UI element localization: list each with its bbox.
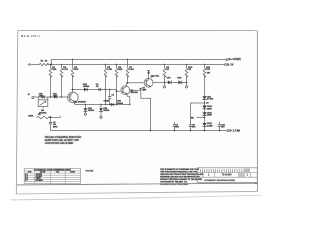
- wire Q2 collector to Q3 base: [126, 82, 144, 84]
- wire R10 bottom lead: [186, 75, 188, 82]
- diode CR2: [54, 95, 57, 98]
- node test point TP2: [185, 86, 187, 88]
- wire Q3 to diode line: [153, 81, 168, 83]
- svg-text:68K: 68K: [118, 69, 122, 71]
- title block row 2 dividers: [202, 173, 204, 178]
- inductor L4 collector lead: [148, 71, 150, 78]
- node L4 arrow: [147, 71, 150, 74]
- capacitor C1: [49, 121, 52, 123]
- transistor Q2: [121, 86, 130, 95]
- node terminal below CR4: [84, 111, 86, 113]
- resistor R11: [203, 68, 206, 77]
- wire Q3 emitter with arrow: [146, 84, 150, 86]
- wire C7 stub: [174, 122, 176, 125]
- wire CR2 to Q1 base: [57, 96, 70, 98]
- node junction R6 detector: [116, 104, 118, 106]
- svg-text:WITHOUT WRITTEN CONSENT OF THE: WITHOUT WRITTEN CONSENT OF THE MAKER.: [160, 178, 203, 181]
- svg-text:TOL: TOL: [56, 172, 59, 174]
- svg-text:B- 2.7 MA: B- 2.7 MA: [230, 129, 241, 132]
- svg-text:1K: 1K: [45, 61, 48, 63]
- wire rail A to rail B connector: [50, 60, 52, 65]
- wire rail B (supply bus): [47, 64, 225, 66]
- wire C1 top lead: [50, 118, 52, 123]
- wire CR1 to CR2: [45, 96, 54, 98]
- diode CR9: [202, 96, 206, 99]
- wire R10 top lead: [186, 65, 188, 69]
- diode CR8: [178, 81, 181, 85]
- wire Q1 collector: [70, 93, 72, 96]
- node junction rails: [50, 64, 52, 66]
- wire R3 top lead: [61, 65, 63, 69]
- svg-text:L4 COIL: L4 COIL: [152, 74, 160, 77]
- svg-text:1.5K: 1.5K: [107, 69, 112, 71]
- svg-text:RESISTORS ARE 1/2 WATT 10%: RESISTORS ARE 1/2 WATT 10%: [45, 139, 79, 142]
- svg-text:B+ 4.5V(R): B+ 4.5V(R): [229, 58, 241, 61]
- svg-text:15K: 15K: [52, 69, 56, 71]
- resistor R4: [71, 68, 74, 77]
- node terminal below CR5: [100, 111, 102, 116]
- node B+ terminal: [226, 59, 228, 61]
- title block frame: [197, 168, 257, 183]
- chart header row: [24, 172, 80, 174]
- wire C1 bottom lead: [50, 124, 52, 131]
- chart column rules: [34, 171, 36, 183]
- wire R3 bottom lead: [61, 75, 63, 97]
- diode CR1: [42, 95, 45, 98]
- node junction rail C7: [174, 130, 176, 132]
- diode CR3: [84, 88, 87, 92]
- wire R8 top lead: [164, 65, 166, 69]
- resistor R2: [49, 68, 52, 77]
- node junction rail at R4: [72, 59, 73, 60]
- diode CR6 on detector line: [111, 103, 114, 106]
- wire Q2 emitter lead: [127, 94, 130, 96]
- svg-text:SCHEMATIC DIAGRAM MODEL: SCHEMATIC DIAGRAM MODEL: [204, 179, 236, 182]
- node junction rail at R11: [204, 64, 205, 65]
- svg-text:500K: 500K: [28, 115, 33, 117]
- wire R6 bottom lead: [116, 75, 118, 104]
- wire bottom return rail: [51, 130, 228, 132]
- capacitor C7: [173, 124, 176, 126]
- node junction emitter branch on rail: [150, 130, 152, 132]
- wire Q1 collector line: [73, 89, 117, 91]
- svg-text:THIS SCHEMATIC IS FURNISHED ON: THIS SCHEMATIC IS FURNISHED ONLY FOR: [160, 168, 200, 171]
- wire R8 bottom lead: [164, 75, 166, 82]
- node junction TP branch: [204, 117, 205, 118]
- wire CR7 to CR8: [171, 81, 178, 83]
- resistor R1: [39, 63, 48, 65]
- wire detector line: [75, 104, 130, 106]
- svg-text:1N34A: 1N34A: [83, 85, 90, 88]
- svg-text:1N34A: 1N34A: [88, 109, 95, 112]
- svg-text:1N34A: 1N34A: [103, 109, 110, 112]
- resistor R6: [115, 68, 118, 77]
- node junction rail stack: [204, 130, 206, 132]
- title block comb ticks: [200, 169, 241, 172]
- svg-text:1K: 1K: [188, 69, 191, 71]
- frame bottom rule: [17, 183, 257, 185]
- wire TP branch: [197, 117, 205, 119]
- crystal unit Y1 box: [38, 100, 48, 107]
- svg-text:MFD: MFD: [53, 126, 58, 128]
- svg-text:PATENTED AND MAY NOT BE REPROD: PATENTED AND MAY NOT BE REPRODUCED: [160, 175, 200, 178]
- svg-text:CODE: CODE: [70, 172, 76, 174]
- diode CR5: [99, 108, 103, 111]
- node B+ feed arrow: [28, 63, 30, 65]
- crystal element inside Y1: [40, 101, 46, 105]
- capacitor C6 blob: [140, 88, 142, 90]
- svg-text:UNLESS OTHERWISE INDICATED:: UNLESS OTHERWISE INDICATED:: [45, 136, 82, 139]
- svg-text:C-7: C-7: [25, 180, 28, 182]
- paper sheet background: [17, 30, 257, 192]
- wire Q2 emitter bypass branch: [130, 90, 151, 130]
- wire CR8 to R10: [182, 81, 187, 83]
- wire Y1 bottom stem: [42, 107, 44, 109]
- svg-text:CAPACITORS ARE IN MMF: CAPACITORS ARE IN MMF: [45, 142, 74, 145]
- wire R2 bottom lead to input line: [50, 75, 52, 97]
- node junction rail at R10: [186, 64, 187, 65]
- capacitor C5 bridging: [109, 90, 111, 97]
- svg-text:MS-B-#50-1: MS-B-#50-1: [21, 34, 40, 38]
- wire R7 bottom lead: [127, 75, 129, 82]
- wire rail A (B+ bus): [51, 59, 226, 61]
- node junction rail at R5: [105, 64, 106, 65]
- wire R11 top lead: [204, 65, 206, 69]
- svg-text:2N1265: 2N1265: [130, 92, 138, 94]
- svg-text:AF MO: AF MO: [207, 98, 214, 101]
- wire Q3 collector: [146, 78, 148, 81]
- diode CR11: [202, 112, 206, 115]
- diode CR10: [202, 106, 206, 109]
- wire R9 end tick: [59, 116, 61, 118]
- node junction R4/collector line: [72, 89, 74, 91]
- wire C10 stub: [219, 122, 221, 125]
- wire Q2 collector: [123, 83, 127, 89]
- node junction R3/input: [61, 96, 63, 98]
- svg-text:3.3K: 3.3K: [129, 69, 134, 71]
- node junction R8/diode line: [164, 82, 166, 84]
- wire R11 lead to stack: [204, 75, 206, 96]
- wire R5 top lead: [105, 65, 107, 69]
- resistor R8: [163, 68, 166, 77]
- wire R2 top lead: [50, 65, 52, 69]
- svg-text:470 MMF: 470 MMF: [36, 179, 43, 182]
- title block comb right cell: [243, 169, 245, 173]
- node junction at detector line: [105, 104, 107, 106]
- svg-text:THE PURCHASERS PERSONAL USE.: THE PURCHASERS PERSONAL USE. THE: [160, 170, 198, 173]
- wire R5 bottom lead: [105, 75, 107, 89]
- node B- rail terminal: [225, 64, 227, 66]
- capacitor C10: [218, 124, 221, 126]
- title block comb row rule: [197, 172, 257, 174]
- svg-text:MB: MB: [191, 118, 195, 120]
- wire C3 plates: [98, 88, 100, 91]
- resistor R9: [36, 116, 51, 118]
- wire Y1 top stub right: [47, 97, 49, 100]
- node junction rail at R6: [116, 64, 117, 65]
- wire Q1 emitter lead down: [74, 102, 76, 105]
- title block row 2 rule: [197, 176, 257, 178]
- wire input line: [34, 96, 42, 98]
- resistor R7: [126, 68, 129, 77]
- svg-text:PRINTED IN U.S.A. FORM 1400-: PRINTED IN U.S.A. FORM 1400-A: [160, 183, 189, 186]
- node junction rail C8cap: [190, 130, 192, 132]
- node junction C5 bottom: [109, 104, 110, 105]
- node junction CR5 hang: [100, 104, 101, 105]
- wire detector line right end up to Q2 emitter: [129, 96, 131, 104]
- wire CR9 to CR10: [204, 100, 206, 106]
- paper left edge / frame left: [16, 31, 18, 194]
- node junction rail at R2: [50, 64, 51, 65]
- node junction CR4 hang: [85, 104, 86, 105]
- node junction stack tap: [204, 102, 205, 103]
- svg-text:1K: 1K: [166, 69, 169, 71]
- node junction rail at R7: [127, 59, 128, 60]
- paper bottom shadow: [11, 198, 160, 200]
- wire junction R5 down to detector line: [105, 90, 107, 105]
- wire CR12 to rail: [204, 126, 206, 130]
- chart title row: [24, 170, 80, 172]
- capacitor C8cap: [189, 124, 192, 126]
- node junction rail at R3: [61, 64, 62, 65]
- svg-text:B- 2V: B- 2V: [227, 64, 234, 67]
- paper bottom edge: [16, 191, 258, 194]
- node junction detector right: [129, 104, 130, 105]
- chart row rules: [24, 174, 80, 176]
- transistor Q1: [68, 92, 79, 103]
- wire R4 top lead: [72, 60, 74, 69]
- resistor R10: [185, 68, 188, 77]
- diode CR12: [202, 123, 206, 126]
- node junction rail at R8: [164, 64, 165, 65]
- diode CR7: [168, 81, 171, 85]
- wire Y1 top stub left: [37, 97, 39, 100]
- resistor R5: [104, 68, 107, 77]
- svg-text:4.7K: 4.7K: [63, 68, 68, 71]
- node junction R6 base: [116, 90, 118, 92]
- node junction C5 top: [109, 89, 110, 90]
- svg-text:SYM: SYM: [28, 172, 32, 174]
- wire Q1 emitter with arrow: [70, 99, 75, 102]
- svg-text:0.5MA: 0.5MA: [207, 124, 213, 127]
- node input jack J1: [32, 97, 34, 99]
- node junction rail C10: [219, 130, 221, 132]
- paper right edge / frame right: [256, 31, 258, 192]
- resistor R3: [60, 68, 63, 77]
- node junction R2 input: [50, 96, 52, 98]
- transistor Q3: [144, 78, 153, 87]
- tolerance and code conversion chart: [24, 168, 80, 183]
- wire CR10 to CR11: [204, 109, 206, 112]
- wire CR4 hang lead: [84, 105, 86, 109]
- wire R8 stub to test point: [164, 82, 166, 85]
- wire R10 stub to test point: [186, 82, 188, 85]
- wire tap branch: [191, 103, 205, 125]
- svg-text:0.5MA: 0.5MA: [104, 99, 110, 102]
- wire R4 bottom lead to Q1 collector: [72, 75, 74, 92]
- svg-text:TS-B-#50: TS-B-#50: [222, 174, 233, 176]
- wire CR11 to CR12: [204, 116, 206, 123]
- node test point TP1: [163, 86, 165, 88]
- wire R7 top lead: [127, 60, 129, 69]
- node junction R5: [105, 89, 107, 91]
- node junction C1: [50, 117, 51, 118]
- svg-text:NOTES: NOTES: [86, 171, 94, 173]
- svg-text:J1: J1: [28, 94, 30, 96]
- node junction R10/diode line: [186, 82, 188, 84]
- wire R6 to Q2 base: [117, 90, 121, 92]
- node B- terminal: [227, 130, 229, 132]
- svg-text:1N34A: 1N34A: [117, 102, 124, 105]
- wire CR5 hang lead: [100, 105, 102, 109]
- diode CR4: [83, 108, 87, 111]
- paper top edge / frame top: [18, 30, 257, 32]
- wire B+ input lead: [30, 64, 39, 66]
- svg-text:47K: 47K: [74, 68, 78, 71]
- wire R9 to junction: [49, 117, 61, 119]
- node junction R7/coupling: [127, 82, 129, 84]
- wire Q2 emitter with arrow: [123, 92, 127, 95]
- wire R6 top lead: [116, 65, 118, 69]
- svg-text:Q1 2N1265: Q1 2N1265: [75, 101, 87, 103]
